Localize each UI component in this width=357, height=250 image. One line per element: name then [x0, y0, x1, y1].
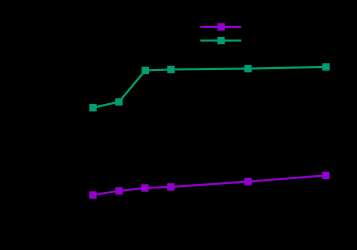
green marker point 6 — [322, 63, 329, 70]
green marker point 1 — [89, 104, 96, 111]
data series 1: purple line with square markers — [89, 172, 329, 199]
legend marker green — [217, 37, 224, 44]
purple marker point 6 — [322, 172, 329, 179]
green marker point 4 — [167, 66, 174, 73]
purple polyline — [93, 175, 326, 195]
legend line sample green — [200, 40, 241, 42]
data series 2: green line with square markers — [89, 63, 329, 111]
legend marker purple — [217, 23, 224, 30]
purple marker point 2 — [115, 187, 122, 194]
legend entry: series 2 (green) sample — [200, 37, 241, 44]
purple marker point 1 — [89, 191, 96, 198]
green marker point 5 — [244, 65, 251, 72]
legend entry: series 1 (purple) sample — [200, 23, 241, 30]
purple marker point 4 — [167, 183, 174, 190]
legend line sample purple — [200, 26, 241, 28]
green polyline — [93, 67, 326, 108]
purple marker point 5 — [244, 178, 251, 185]
green marker point 3 — [142, 67, 149, 74]
purple marker point 3 — [141, 184, 148, 191]
green marker point 2 — [115, 98, 122, 105]
